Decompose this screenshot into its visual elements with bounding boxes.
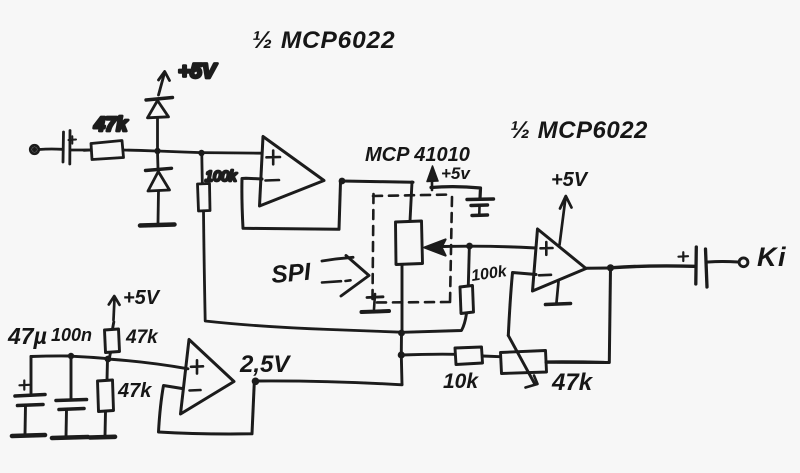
svg-text:+5V: +5V [551, 169, 589, 191]
node B [198, 150, 204, 156]
wire U2 out [586, 267, 610, 270]
wire [708, 260, 738, 263]
wire U2 feedback [546, 268, 611, 363]
node C [398, 330, 405, 337]
node A [154, 148, 160, 154]
wire [400, 355, 404, 385]
resistor R4 10k [401, 347, 500, 365]
wire rail [31, 355, 70, 358]
svg-text:47k: 47k [551, 369, 594, 396]
wire [108, 359, 188, 369]
svg-text:Ki: Ki [757, 242, 787, 272]
wire [342, 181, 413, 182]
ground (R6) [90, 434, 115, 439]
wiper arrow P1 [425, 240, 537, 256]
svg-text:10k: 10k [443, 370, 479, 393]
trimmer P2 47k [501, 336, 547, 388]
resistor R5 47k [105, 322, 120, 358]
SPI arrow [322, 256, 369, 297]
svg-text:100n: 100n [51, 325, 92, 345]
svg-text:47k: 47k [117, 380, 152, 402]
svg-text:MCP 41010: MCP 41010 [365, 144, 470, 166]
op-amp U1 [260, 137, 325, 207]
wire 2.5V rail [256, 381, 403, 385]
potentiometer P1 (MCP41010) [396, 221, 423, 265]
resistor R2 100k [198, 155, 211, 211]
node E [466, 243, 473, 250]
output connector Ki [739, 258, 748, 267]
svg-text:2,5V: 2,5V [239, 351, 291, 378]
wire [158, 151, 202, 153]
wire [71, 356, 107, 358]
capacitor C5 100n [56, 357, 87, 438]
power +5V arrow (ref) [109, 296, 120, 320]
op-amp U3 [181, 340, 235, 415]
op-amp U2 [533, 229, 587, 291]
svg-text:47µ: 47µ [7, 323, 47, 349]
wire [39, 148, 62, 151]
resistor R6 47k [98, 359, 114, 436]
capacitor C3 [679, 247, 708, 287]
svg-text:+5V: +5V [123, 287, 161, 309]
svg-text:47k: 47k [125, 327, 159, 348]
capacitor C1 [63, 131, 76, 165]
power +5V arrow (U2) [560, 196, 572, 245]
ground (MCP41010) [362, 294, 390, 312]
node H [105, 356, 112, 363]
wire [410, 182, 412, 221]
node U3 out [252, 378, 260, 386]
svg-text:SPI: SPI [270, 259, 313, 289]
capacitor C2 [467, 199, 494, 216]
wire [611, 266, 695, 268]
svg-text:47k: 47k [93, 114, 128, 136]
ground [140, 225, 175, 226]
node U1 out [339, 178, 346, 185]
ground (U2) [546, 282, 571, 305]
dashed box MCP41010 [373, 193, 453, 303]
input connector J1 [30, 145, 38, 153]
wire P1 bottom [401, 265, 404, 333]
svg-text:½ MCP6022: ½ MCP6022 [252, 27, 395, 54]
node F [607, 264, 614, 271]
power +5V arrow (MCP41010) [427, 166, 481, 199]
capacitor C4 47u [15, 357, 45, 435]
node D [398, 351, 405, 358]
wire [71, 149, 91, 152]
wire U2 inverting input [508, 273, 536, 336]
node G [68, 353, 74, 359]
wire [124, 150, 157, 151]
wire [400, 333, 403, 354]
wire feedback U3 [159, 382, 255, 434]
wire [547, 360, 605, 363]
ground (C4) [12, 435, 45, 436]
wire [202, 151, 263, 154]
resistor R1 47k [84, 141, 124, 160]
wire [204, 211, 402, 332]
diode D1 [146, 98, 173, 152]
svg-text:+5V: +5V [178, 60, 218, 83]
ground (C5) [52, 437, 88, 438]
power +5V arrow [159, 72, 170, 96]
svg-text:½ MCP6022: ½ MCP6022 [510, 117, 648, 144]
svg-text:+5v: +5v [441, 164, 471, 183]
wire feedback U1 [242, 178, 341, 229]
svg-text:100k: 100k [205, 169, 237, 185]
resistor R3 100k [402, 249, 474, 333]
diode D2 [146, 152, 172, 223]
